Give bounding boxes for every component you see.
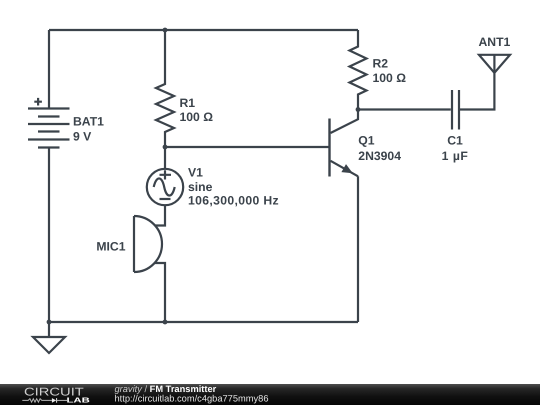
label R2 value (373, 56, 407, 85)
transistor Q1 collector (331, 110, 359, 134)
microphone MIC1 (134, 216, 162, 272)
resistor R2 (350, 30, 367, 110)
label C1 value (442, 134, 469, 163)
label MIC1 (96, 240, 125, 254)
resistor R1 (156, 30, 174, 147)
svg-text:V1: V1 (188, 165, 203, 179)
svg-text:sine: sine (188, 180, 213, 194)
svg-text:MIC1: MIC1 (96, 240, 125, 254)
svg-text:LAB: LAB (67, 395, 90, 404)
wire battery top lead (48, 30, 50, 109)
svg-text:BAT1: BAT1 (73, 115, 104, 129)
label BAT1 value (73, 115, 104, 144)
footer bar (0, 384, 540, 405)
svg-text:C1: C1 (447, 134, 463, 148)
wire base from node to Q1 (165, 146, 330, 148)
footer logo LAB (67, 395, 90, 404)
footer logo CIRCUIT (24, 387, 84, 399)
footer title text (115, 384, 217, 394)
svg-text:106,300,000 Hz: 106,300,000 Hz (188, 194, 279, 208)
svg-text:Q1: Q1 (358, 134, 374, 148)
wire battery bottom lead (48, 148, 50, 323)
svg-text:100 Ω: 100 Ω (373, 71, 407, 85)
capacitor C1 plates (452, 90, 459, 130)
svg-text:R2: R2 (373, 56, 389, 70)
battery BAT1 plus sign (34, 98, 42, 106)
node junction mic bottom rail (163, 320, 168, 325)
node junction ground rail left (47, 320, 52, 325)
label ANT1 (478, 35, 510, 49)
label Q1 value (358, 134, 401, 163)
antenna ANT1 (479, 55, 510, 73)
wire collector node to C1 (358, 108, 451, 110)
svg-text:2N3904: 2N3904 (358, 149, 401, 163)
battery BAT1 plates (28, 109, 70, 148)
transistor Q1 emitter (331, 161, 359, 177)
wire ground lead (48, 322, 50, 337)
footer logo schematic squiggle (22, 398, 67, 403)
wire emitter to bottom rail (357, 176, 359, 322)
wire mic bottom lead (155, 263, 165, 322)
node junction R1 bottom (163, 145, 168, 150)
node junction collector (356, 107, 361, 112)
source V1 lead top (164, 147, 166, 169)
source V1 lead bottom (155, 205, 165, 226)
transistor Q1 base bar (328, 119, 330, 177)
svg-text:100 Ω: 100 Ω (180, 110, 214, 124)
label R1 value (180, 96, 214, 124)
svg-text:R1: R1 (180, 96, 196, 110)
wire C1 to antenna (460, 73, 494, 110)
wire bottom rail (49, 321, 358, 323)
svg-text:1 µF: 1 µF (442, 149, 469, 163)
source V1 circle (147, 169, 183, 205)
node junction top rail R1 (163, 28, 168, 33)
wire top rail (49, 29, 358, 31)
ground symbol (33, 337, 65, 353)
svg-text:9 V: 9 V (73, 129, 92, 143)
svg-text:ANT1: ANT1 (478, 35, 510, 49)
svg-text:http://circuitlab.com/c4gba775: http://circuitlab.com/c4gba775mmy86 (115, 393, 269, 403)
label V1 value (188, 165, 279, 207)
footer url text (115, 393, 269, 403)
